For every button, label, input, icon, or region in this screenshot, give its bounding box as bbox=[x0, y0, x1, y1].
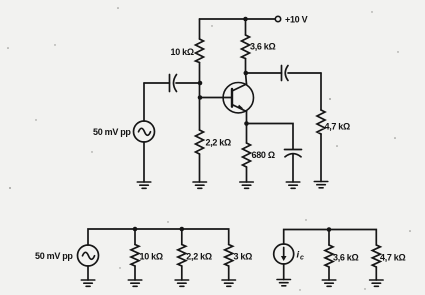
capacitor output coupling bbox=[281, 66, 283, 81]
wire source bottom to ground (bottom left) bbox=[87, 266, 89, 280]
svg-text:3,6 kΩ: 3,6 kΩ bbox=[250, 42, 276, 52]
wire base node to transistor base bbox=[200, 97, 232, 99]
wire 3.6k equiv to ground bbox=[328, 267, 330, 280]
wire 2.2k to ground bbox=[181, 266, 183, 280]
wire rail to 3.6k equiv bbox=[328, 230, 330, 246]
capacitor input coupling bbox=[169, 75, 171, 92]
wire emitter to emitter node bbox=[246, 112, 248, 124]
wire source branch to input cap bbox=[144, 82, 170, 84]
transistor emitter arrow bbox=[238, 105, 244, 109]
ground under bypass cap bbox=[286, 182, 300, 188]
source 50 mV pp (bottom) bbox=[78, 245, 99, 266]
node supply/3.6k junction bbox=[243, 17, 248, 22]
wire bottom-right rail bbox=[284, 230, 377, 246]
wire 4.7k bottom to ground bbox=[320, 134, 322, 182]
node rail/2.2k junction bbox=[180, 227, 185, 232]
wire 680 bottom to ground bbox=[246, 167, 248, 182]
wire 2.2k bottom to ground bbox=[199, 154, 201, 182]
ground under 3.6k equiv bbox=[322, 280, 336, 286]
svg-text:680 Ω: 680 Ω bbox=[252, 150, 275, 160]
wire supply node down to 3.6k bbox=[245, 19, 247, 35]
wire base node to 2.2k top bbox=[199, 83, 201, 130]
ground under bottom source bbox=[81, 280, 95, 286]
transistor Q1 circle bbox=[223, 83, 253, 113]
resistor R 10 kOhm (equiv) bbox=[131, 245, 139, 267]
resistor R 3,6 kOhm bbox=[242, 35, 250, 59]
svg-text:3,6 kΩ: 3,6 kΩ bbox=[333, 253, 359, 263]
svg-text:2,2 kΩ: 2,2 kΩ bbox=[206, 138, 232, 148]
transistor emitter lead bbox=[232, 105, 247, 112]
node rail/3.6k junction (equiv) bbox=[327, 227, 332, 232]
wire output cap to load corner bbox=[288, 72, 321, 74]
wire 3k to ground bbox=[228, 266, 230, 280]
wire 10k bottom to base node bbox=[199, 63, 201, 84]
resistor R 2,2 kOhm (equiv) bbox=[178, 245, 186, 267]
wire down to 4.7k bbox=[320, 73, 322, 110]
svg-text:50 mV pp: 50 mV pp bbox=[35, 251, 73, 261]
svg-text:4,7 kΩ: 4,7 kΩ bbox=[380, 253, 406, 263]
current source ic bbox=[274, 244, 294, 264]
svg-text:10 kΩ: 10 kΩ bbox=[171, 47, 194, 57]
wire current source to ground bbox=[283, 264, 285, 280]
svg-text:10 kΩ: 10 kΩ bbox=[140, 252, 163, 262]
wire rail to 2.2k bbox=[181, 229, 183, 245]
wire bypass cap to ground bbox=[292, 155, 294, 183]
wire input cap to base node bbox=[176, 82, 200, 84]
svg-text:2,2 kΩ: 2,2 kΩ bbox=[186, 252, 212, 262]
node emitter junction bbox=[244, 121, 249, 126]
transistor collector lead bbox=[232, 84, 247, 91]
wire source bottom to ground bbox=[143, 142, 145, 182]
wire collector node to output cap bbox=[246, 72, 282, 74]
ground under 4.7k bbox=[314, 182, 328, 188]
resistor R 4,7 kOhm bbox=[317, 110, 325, 134]
resistor R 2,2 kOhm bbox=[196, 130, 204, 154]
ground under 3k bbox=[222, 280, 236, 286]
ground under 10k equiv bbox=[128, 280, 142, 286]
resistor R 10 kOhm bbox=[196, 39, 204, 63]
transistor base bar bbox=[231, 89, 233, 107]
resistor R 4,7 kOhm (equiv) bbox=[372, 245, 380, 267]
node rail/10k junction bbox=[133, 227, 138, 232]
source 50 mV pp (top) bbox=[134, 121, 155, 142]
wire 4.7k equiv to ground bbox=[375, 267, 377, 280]
ground under 4.7k equiv bbox=[370, 280, 384, 286]
resistor R 3 kOhm (equiv) bbox=[225, 245, 233, 267]
ground under 2.2k equiv bbox=[175, 280, 189, 286]
capacitor emitter bypass bbox=[285, 149, 302, 151]
wire source top to cap wire bbox=[143, 83, 145, 121]
svg-text:c: c bbox=[300, 255, 304, 262]
resistor R 3,6 kOhm (equiv) bbox=[325, 245, 333, 267]
ground under 680 bbox=[240, 182, 254, 188]
svg-text:50 mV pp: 50 mV pp bbox=[93, 127, 131, 137]
wire rail to 10k bbox=[134, 229, 136, 245]
ground under current source bbox=[277, 280, 291, 286]
node collector/output junction bbox=[244, 71, 249, 76]
ground under 2.2k bbox=[193, 182, 207, 188]
svg-text:3 kΩ: 3 kΩ bbox=[234, 252, 253, 262]
wire bottom-left rail bbox=[88, 229, 229, 245]
wire emitter node down to 680 bbox=[246, 124, 248, 144]
ground under source (top circuit) bbox=[137, 182, 151, 188]
wire top supply rail bbox=[200, 18, 276, 20]
svg-text:+10 V: +10 V bbox=[285, 15, 308, 25]
svg-text:4,7 kΩ: 4,7 kΩ bbox=[325, 122, 351, 132]
resistor R 680 Ohm bbox=[243, 143, 251, 167]
node input cap junction bbox=[198, 81, 203, 86]
terminal +10 V open circle bbox=[275, 16, 280, 21]
wire 10k to ground bbox=[134, 266, 136, 280]
wire emitter node to bypass cap bbox=[247, 124, 294, 150]
wire supply rail down to 10k top bbox=[199, 19, 201, 39]
node base junction bbox=[198, 95, 203, 100]
wire 3.6k bottom to collector node bbox=[246, 59, 247, 85]
